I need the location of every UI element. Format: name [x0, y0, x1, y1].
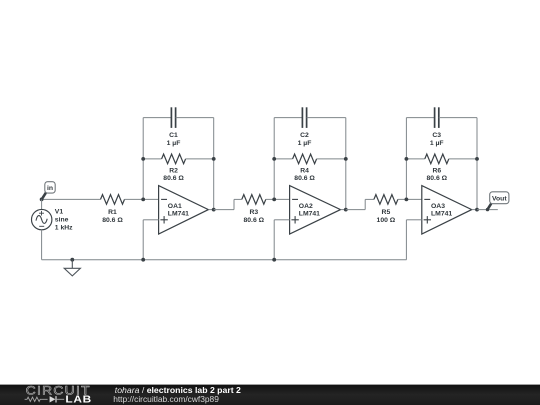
wire: node A to V1 top: [41, 199, 43, 209]
op-amp OA2 LM741: [290, 186, 341, 234]
wire: feedback top right (stage 1): [176, 117, 214, 119]
svg-text:Vout: Vout: [492, 195, 507, 202]
wire: left feedback vertical (stage 2): [273, 118, 275, 200]
wire: feedback top right (stage 2): [307, 117, 346, 119]
wire: bottom ground rail: [42, 259, 407, 261]
junction: non-inverting input to rail (stage 1): [141, 258, 145, 262]
wire: R3 to stage 2 inverting input: [266, 198, 290, 200]
footer bar: [0, 385, 540, 405]
svg-text:sine: sine: [55, 216, 69, 223]
resistor R3: [242, 195, 266, 224]
svg-text:R4: R4: [300, 167, 309, 174]
wire: V1 bottom to ground rail: [41, 230, 43, 260]
logo: CIRCUIT outline text: [26, 384, 91, 397]
capacitor C2 1 uF: [298, 107, 312, 147]
svg-text:1 µF: 1 µF: [167, 140, 181, 147]
svg-text:80.6 Ω: 80.6 Ω: [102, 217, 123, 224]
svg-text:OA2: OA2: [299, 203, 313, 210]
wire: output jog to R5: [346, 199, 374, 209]
svg-text:LM741: LM741: [431, 211, 452, 218]
junction: inverting input node (stage 3): [405, 198, 409, 202]
svg-text:80.6 Ω: 80.6 Ω: [427, 175, 448, 182]
junction: inverting input node (stage 2): [272, 198, 276, 202]
svg-text:http://circuitlab.com/cwf3p89: http://circuitlab.com/cwf3p89: [113, 394, 219, 404]
junction: left vertical / R2: [141, 157, 145, 161]
svg-text:OA1: OA1: [168, 203, 182, 210]
wire: output stub (stage 2): [341, 209, 346, 211]
svg-text:100 Ω: 100 Ω: [377, 217, 396, 224]
wire: right feedback vertical (stage 3): [476, 118, 478, 210]
resistor R1: [101, 195, 125, 224]
wire: R5 to stage 3 inverting input: [398, 198, 423, 200]
footer title: [115, 385, 241, 395]
wire: non-inverting input drop (stage 3): [406, 220, 421, 260]
wire: left feedback vertical (stage 3): [405, 118, 407, 200]
resistor R5: [374, 195, 398, 224]
junction: left vertical / R6: [405, 157, 409, 161]
svg-text:80.6 Ω: 80.6 Ω: [244, 217, 265, 224]
junction: right vertical / R6: [475, 157, 479, 161]
svg-text:R1: R1: [108, 209, 117, 216]
svg-text:1 µF: 1 µF: [430, 140, 444, 147]
svg-text:R6: R6: [432, 167, 441, 174]
svg-text:C3: C3: [432, 132, 441, 139]
logo: LAB text: [65, 394, 92, 405]
svg-text:LAB: LAB: [65, 394, 92, 405]
svg-text:V1: V1: [55, 208, 64, 215]
wire: node A to R1 left lead: [42, 198, 101, 200]
svg-text:1 kHz: 1 kHz: [55, 224, 73, 231]
wire: feedback top left (stage 3): [406, 117, 434, 119]
footer url: [113, 394, 219, 404]
resistor R2 feedback: [143, 154, 214, 182]
capacitor C1 1 uF: [167, 107, 181, 147]
svg-text:80.6 Ω: 80.6 Ω: [294, 175, 315, 182]
wire: left feedback vertical (stage 1): [142, 118, 144, 200]
svg-text:in: in: [47, 185, 53, 192]
wire: R1 to OA1 inverting input: [125, 198, 159, 200]
wire: right feedback vertical (stage 1): [213, 118, 215, 210]
wire: right feedback vertical (stage 2): [345, 118, 347, 210]
junction: non-inverting input to rail (stage 2): [272, 258, 276, 262]
op-amp OA1 LM741: [159, 186, 209, 234]
svg-text:C1: C1: [169, 132, 178, 139]
wire: output jog to R3: [214, 199, 242, 209]
wire: output stub (stage 3): [472, 209, 477, 211]
node A (input node): [40, 198, 44, 202]
junction: right vertical / R2: [212, 157, 216, 161]
junction: right vertical / R4: [344, 157, 348, 161]
ground: [64, 258, 80, 276]
junction: output node (stage 3): [475, 208, 479, 212]
svg-text:R2: R2: [169, 167, 178, 174]
svg-text:80.6 Ω: 80.6 Ω: [163, 175, 184, 182]
junction: inverting input node (stage 1): [141, 198, 145, 202]
svg-text:OA3: OA3: [431, 203, 445, 210]
logo: resistor-diode glyph: [25, 396, 65, 402]
wire: feedback top left (stage 2): [274, 117, 302, 119]
resistor R6 feedback: [406, 154, 477, 182]
voltage source V1 (sine, 1 kHz): [32, 208, 74, 231]
wire: non-inverting input drop (stage 1): [143, 220, 158, 260]
junction: output node (stage 1): [212, 208, 216, 212]
svg-text:R5: R5: [382, 209, 391, 216]
junction: output node (stage 2): [344, 208, 348, 212]
wire: feedback top right (stage 3): [439, 117, 477, 119]
svg-text:LM741: LM741: [168, 211, 189, 218]
wire: output stub (stage 1): [208, 209, 213, 211]
resistor R4 feedback: [274, 154, 346, 182]
svg-text:C2: C2: [300, 132, 309, 139]
op-amp OA3 LM741: [422, 186, 472, 234]
flag: Vout: [486, 192, 509, 212]
wire: feedback top left (stage 1): [143, 117, 171, 119]
wire: OA3 output to Vout: [477, 209, 498, 211]
capacitor C3 1 uF: [430, 107, 444, 147]
svg-text:1 µF: 1 µF: [298, 140, 312, 147]
svg-text:R3: R3: [249, 209, 258, 216]
wire: non-inverting input drop (stage 2): [274, 220, 289, 260]
flag: in: [42, 182, 55, 200]
junction: left vertical / R4: [272, 157, 276, 161]
svg-text:LM741: LM741: [299, 211, 320, 218]
